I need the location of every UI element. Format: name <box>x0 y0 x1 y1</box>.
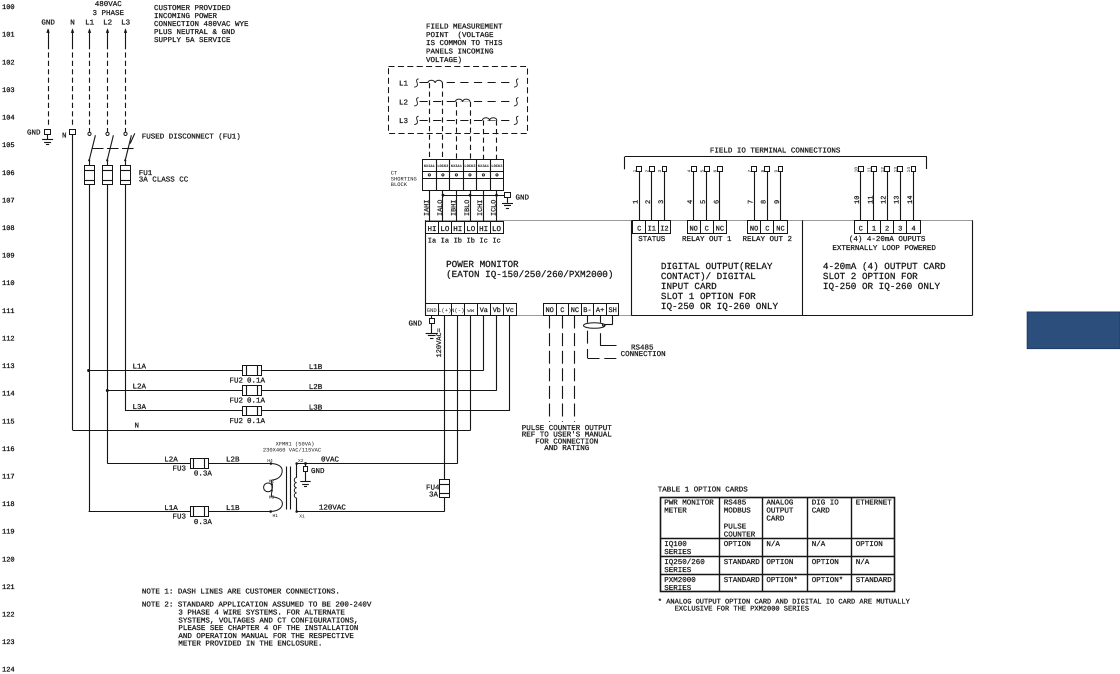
svg-text:LO: LO <box>466 225 476 234</box>
svg-text:FU3: FU3 <box>173 464 187 473</box>
svg-text:IQ-250 OR IQ-260 ONLY: IQ-250 OR IQ-260 ONLY <box>661 301 779 312</box>
svg-text:FU2: FU2 <box>230 396 244 405</box>
svg-text:101: 101 <box>2 32 15 40</box>
svg-text:TABLE 1 OPTION CARDS: TABLE 1 OPTION CARDS <box>658 485 749 494</box>
svg-text:FIELD IO TERMINAL CONNECTIONS: FIELD IO TERMINAL CONNECTIONS <box>710 147 841 156</box>
svg-text:L3A: L3A <box>133 403 147 412</box>
svg-text:ICLO: ICLO <box>490 200 498 216</box>
svg-text:SERIES: SERIES <box>664 548 692 557</box>
svg-text:0.1A: 0.1A <box>247 417 266 426</box>
svg-text:X2: X2 <box>298 458 304 464</box>
svg-text:14: 14 <box>906 167 912 173</box>
svg-text:106: 106 <box>2 170 15 178</box>
svg-text:12: 12 <box>880 167 886 173</box>
svg-text:A+: A+ <box>596 307 604 315</box>
svg-text:N/A: N/A <box>856 558 870 567</box>
svg-text:114: 114 <box>2 391 15 399</box>
svg-text:6: 6 <box>713 200 721 204</box>
svg-text:GND: GND <box>427 307 438 314</box>
svg-text:IALO: IALO <box>437 200 445 216</box>
svg-text:LO: LO <box>492 225 502 234</box>
svg-text:AND RATING: AND RATING <box>544 444 590 453</box>
svg-text:2: 2 <box>645 170 651 173</box>
svg-text:FU3: FU3 <box>173 513 187 522</box>
svg-text:KX3&1: KX3&1 <box>478 164 490 169</box>
svg-text:LO: LO <box>440 225 450 234</box>
svg-text:SYSTEMS, VOLTAGES AND CT CONFI: SYSTEMS, VOLTAGES AND CT CONFIGURATIONS, <box>178 616 358 625</box>
svg-text:OPTION*: OPTION* <box>766 576 798 585</box>
svg-text:6: 6 <box>713 170 719 173</box>
svg-text:H3: H3 <box>269 495 275 501</box>
svg-text:108: 108 <box>2 225 15 233</box>
svg-text:13: 13 <box>893 167 899 173</box>
svg-text:I1: I1 <box>648 225 656 233</box>
svg-text:2: 2 <box>885 225 889 233</box>
svg-text:10: 10 <box>854 196 862 204</box>
svg-text:IBHI: IBHI <box>450 200 458 216</box>
svg-text:0.3A: 0.3A <box>194 518 213 527</box>
svg-text:GND: GND <box>516 194 530 203</box>
svg-text:OPTION: OPTION <box>724 540 751 549</box>
svg-text:10: 10 <box>854 167 860 173</box>
svg-text:FU2: FU2 <box>230 376 244 385</box>
svg-text:NC: NC <box>716 225 724 233</box>
svg-text:IQ-250 OR IQ-260 ONLY: IQ-250 OR IQ-260 ONLY <box>823 281 941 292</box>
svg-text:3: 3 <box>898 225 902 233</box>
svg-text:STANDARD: STANDARD <box>724 558 761 567</box>
svg-text:104: 104 <box>2 115 15 123</box>
svg-text:9: 9 <box>774 200 782 204</box>
svg-text:8: 8 <box>760 170 766 173</box>
svg-text:103: 103 <box>2 87 15 95</box>
svg-text:EXCLUSIVE FOR THE PXM2000 SERI: EXCLUSIVE FOR THE PXM2000 SERIES <box>675 606 809 614</box>
svg-text:CARD: CARD <box>766 515 785 524</box>
svg-text:5: 5 <box>700 200 708 204</box>
svg-text:IAHI: IAHI <box>423 200 431 216</box>
svg-text:11: 11 <box>867 167 873 173</box>
svg-text:CONNECTION: CONNECTION <box>621 350 666 359</box>
svg-text:FIELD MEASUREMENT: FIELD MEASUREMENT <box>426 23 503 32</box>
svg-text:119: 119 <box>2 529 15 537</box>
svg-text:STATUS: STATUS <box>638 235 666 244</box>
svg-text:METER: METER <box>664 508 687 516</box>
svg-text:FU2: FU2 <box>230 417 244 426</box>
svg-text:112: 112 <box>2 335 15 343</box>
svg-text:CONNECTION 480VAC WYE: CONNECTION 480VAC WYE <box>154 20 249 29</box>
svg-text:105: 105 <box>2 142 15 150</box>
svg-text:GND: GND <box>311 467 325 476</box>
svg-text:4: 4 <box>686 170 692 173</box>
svg-text:CARD: CARD <box>812 507 831 516</box>
svg-text:PWR MONITOR: PWR MONITOR <box>664 499 714 508</box>
svg-text:FUSED DISCONNECT (FU1): FUSED DISCONNECT (FU1) <box>142 133 241 142</box>
svg-text:12: 12 <box>881 196 889 204</box>
svg-text:KX3&1: KX3&1 <box>424 164 436 169</box>
svg-text:VOLTAGE): VOLTAGE) <box>426 56 462 65</box>
svg-text:C: C <box>859 225 863 233</box>
svg-text:13: 13 <box>894 196 902 204</box>
svg-text:CUSTOMER PROVIDED: CUSTOMER PROVIDED <box>154 4 231 13</box>
svg-text:EXTERNALLY LOOP POWERED: EXTERNALLY LOOP POWERED <box>832 244 936 253</box>
svg-text:KX3&1: KX3&1 <box>451 164 463 169</box>
svg-text:OPTION: OPTION <box>856 540 883 549</box>
svg-text:0.1A: 0.1A <box>247 396 266 405</box>
svg-text:PXM2000: PXM2000 <box>664 576 696 585</box>
svg-text:B-: B- <box>583 307 591 315</box>
svg-text:11: 11 <box>867 196 875 204</box>
svg-text:H1: H1 <box>273 513 279 519</box>
svg-text:PLEASE SEE CHAPTER 4 OF THE IN: PLEASE SEE CHAPTER 4 OF THE INSTALLATION <box>178 624 358 633</box>
svg-text:PLUS NEUTRAL & GND: PLUS NEUTRAL & GND <box>154 28 236 37</box>
svg-text:120VAC=: 120VAC= <box>436 328 444 357</box>
svg-text:3A CLASS CC: 3A CLASS CC <box>139 176 189 185</box>
svg-text:14: 14 <box>907 196 915 204</box>
svg-text:L3: L3 <box>399 117 409 126</box>
svg-text:DIG IO: DIG IO <box>812 499 840 508</box>
svg-text:NOTE 2: STANDARD APPLICATION A: NOTE 2: STANDARD APPLICATION ASSUMED TO … <box>142 601 372 610</box>
svg-text:L2A: L2A <box>133 383 147 392</box>
svg-text:INCOMING POWER: INCOMING POWER <box>154 12 218 21</box>
svg-text:X1: X1 <box>299 513 305 519</box>
svg-text:H2: H2 <box>269 478 275 484</box>
svg-text:7: 7 <box>747 170 753 173</box>
svg-text:NO: NO <box>750 225 758 233</box>
svg-text:ANALOG: ANALOG <box>766 499 794 508</box>
svg-text:POINT (VOLTAGE: POINT (VOLTAGE <box>426 31 494 40</box>
svg-text:H4: H4 <box>267 458 273 464</box>
svg-text:OPTION: OPTION <box>766 558 793 567</box>
svg-text:NOTE 1: DASH LINES ARE CUSTOME: NOTE 1: DASH LINES ARE CUSTOMER CONNECTI… <box>142 588 340 597</box>
svg-text:NO: NO <box>689 225 697 233</box>
svg-text:116: 116 <box>2 446 15 454</box>
svg-text:HI: HI <box>427 226 436 234</box>
svg-text:120VAC: 120VAC <box>319 504 347 513</box>
svg-text:N: N <box>62 133 67 141</box>
svg-text:102: 102 <box>2 59 15 67</box>
svg-text:OUTPUT: OUTPUT <box>766 507 794 516</box>
svg-text:117: 117 <box>2 473 15 481</box>
svg-text:1: 1 <box>633 200 641 204</box>
svg-text:IQ100: IQ100 <box>664 540 687 549</box>
svg-text:AND OPERATION MANUAL FOR THE R: AND OPERATION MANUAL FOR THE RESPECTIVE <box>178 632 354 641</box>
svg-text:ICHI: ICHI <box>477 200 485 216</box>
svg-text:Ib: Ib <box>467 236 475 245</box>
svg-text:115: 115 <box>2 418 15 426</box>
svg-text:ETHERNET: ETHERNET <box>856 500 893 508</box>
svg-text:C: C <box>637 225 641 233</box>
svg-text:Vb: Vb <box>493 307 501 315</box>
svg-text:RELAY OUT 1: RELAY OUT 1 <box>682 235 732 244</box>
svg-text:124: 124 <box>2 667 15 674</box>
svg-text:5: 5 <box>700 170 706 173</box>
svg-text:I2: I2 <box>660 225 668 233</box>
svg-text:N(-): N(-) <box>451 307 464 314</box>
svg-text:L2: L2 <box>399 98 408 107</box>
svg-text:120: 120 <box>2 556 15 564</box>
svg-text:Ic: Ic <box>492 237 500 245</box>
svg-text:8: 8 <box>761 200 769 204</box>
svg-text:GND: GND <box>409 320 423 329</box>
svg-text:100: 100 <box>2 4 15 12</box>
svg-text:SERIES: SERIES <box>664 566 692 575</box>
svg-text:L2B: L2B <box>309 383 323 392</box>
svg-text:C: C <box>765 225 769 233</box>
svg-text:L(+): L(+) <box>438 307 451 314</box>
svg-text:109: 109 <box>2 253 15 261</box>
svg-text:OPTION: OPTION <box>812 558 839 567</box>
svg-text:Va: Va <box>480 307 488 315</box>
svg-text:1: 1 <box>872 225 876 233</box>
svg-text:Ic: Ic <box>479 237 487 245</box>
svg-text:L2A: L2A <box>164 456 178 465</box>
svg-text:N/A: N/A <box>812 540 826 549</box>
svg-text:IS COMMON TO THIS: IS COMMON TO THIS <box>426 39 503 48</box>
svg-text:118: 118 <box>2 501 15 509</box>
svg-text:1: 1 <box>632 170 638 173</box>
svg-text:NC: NC <box>776 225 784 233</box>
svg-text:111: 111 <box>2 308 15 316</box>
svg-text:Vc: Vc <box>506 307 514 315</box>
svg-text:PULSE: PULSE <box>724 523 747 532</box>
svg-text:3: 3 <box>658 200 666 204</box>
svg-text:NC: NC <box>571 307 579 315</box>
svg-text:(4) 4-20mA OUPUTS: (4) 4-20mA OUPUTS <box>849 235 926 244</box>
svg-text:4: 4 <box>687 200 695 204</box>
svg-text:L1: L1 <box>85 20 95 28</box>
svg-text:121: 121 <box>2 584 15 592</box>
svg-text:L1A: L1A <box>133 364 147 372</box>
svg-text:Ia: Ia <box>441 237 449 245</box>
svg-text:HI: HI <box>453 226 462 234</box>
svg-text:7: 7 <box>748 200 756 204</box>
svg-text:0VAC: 0VAC <box>321 456 340 465</box>
svg-text:C: C <box>560 307 564 315</box>
svg-text:L1: L1 <box>399 81 409 89</box>
svg-text:L3: L3 <box>121 19 131 28</box>
svg-text:COUNTER: COUNTER <box>724 531 756 540</box>
svg-text:SH: SH <box>608 307 616 315</box>
svg-text:METER PROVIDED IN THE ENCLOSUR: METER PROVIDED IN THE ENCLOSURE. <box>178 640 322 649</box>
svg-text:PANELS INCOMING: PANELS INCOMING <box>426 48 494 57</box>
svg-text:110: 110 <box>2 280 15 288</box>
svg-text:LOCK3: LOCK3 <box>491 164 503 169</box>
svg-text:N/A: N/A <box>766 540 780 549</box>
svg-text:123: 123 <box>2 639 15 647</box>
svg-text:IBLO: IBLO <box>464 200 472 216</box>
svg-text:L2: L2 <box>103 19 112 28</box>
svg-text:STANDARD: STANDARD <box>724 576 761 585</box>
svg-text:113: 113 <box>2 363 15 371</box>
svg-text:L3B: L3B <box>309 403 323 412</box>
svg-text:2: 2 <box>645 200 653 204</box>
svg-text:0.1A: 0.1A <box>247 376 266 385</box>
svg-text:STANDARD: STANDARD <box>856 576 893 585</box>
svg-text:LOCK3: LOCK3 <box>464 164 476 169</box>
svg-text:0.3A: 0.3A <box>194 470 213 479</box>
svg-text:SUPPLY 5A SERVICE: SUPPLY 5A SERVICE <box>154 36 231 45</box>
svg-text:BLOCK: BLOCK <box>391 182 408 188</box>
svg-text:N: N <box>70 20 75 28</box>
svg-text:3A: 3A <box>429 491 439 500</box>
svg-text:MODBUS: MODBUS <box>724 507 752 516</box>
svg-text:122: 122 <box>2 612 15 620</box>
svg-text:3 PHASE: 3 PHASE <box>92 9 124 18</box>
svg-text:Ia: Ia <box>428 237 436 245</box>
svg-text:(EATON IQ-150/250/260/PXM2000): (EATON IQ-150/250/260/PXM2000) <box>446 269 613 280</box>
svg-text:Ib: Ib <box>454 236 462 245</box>
svg-text:GND: GND <box>27 129 41 138</box>
svg-text:4: 4 <box>911 225 915 233</box>
svg-text:OPTION*: OPTION* <box>812 576 844 585</box>
svg-text:RS485: RS485 <box>724 499 747 508</box>
svg-text:N: N <box>135 423 140 431</box>
svg-text:3 PHASE 4 WIRE SYSTEMS. FOR AL: 3 PHASE 4 WIRE SYSTEMS. FOR ALTERNATE <box>178 609 345 618</box>
svg-text:C: C <box>705 225 709 233</box>
svg-text:ww: ww <box>467 307 474 314</box>
svg-text:107: 107 <box>2 197 15 205</box>
svg-text:3: 3 <box>657 170 663 173</box>
svg-text:LOCK3: LOCK3 <box>437 164 449 169</box>
svg-text:L1B: L1B <box>309 364 323 372</box>
svg-text:NO: NO <box>545 307 553 315</box>
svg-text:L1A: L1A <box>164 505 178 513</box>
svg-text:9: 9 <box>773 170 779 173</box>
svg-text:480VAC: 480VAC <box>95 0 123 9</box>
svg-text:GND: GND <box>41 19 55 28</box>
svg-text:IQ250/260: IQ250/260 <box>664 558 705 567</box>
svg-text:SERIES: SERIES <box>664 584 692 593</box>
svg-text:RELAY OUT 2: RELAY OUT 2 <box>743 235 793 244</box>
svg-text:HI: HI <box>479 226 488 234</box>
svg-text:230X460 VAC/115VAC: 230X460 VAC/115VAC <box>263 447 321 453</box>
